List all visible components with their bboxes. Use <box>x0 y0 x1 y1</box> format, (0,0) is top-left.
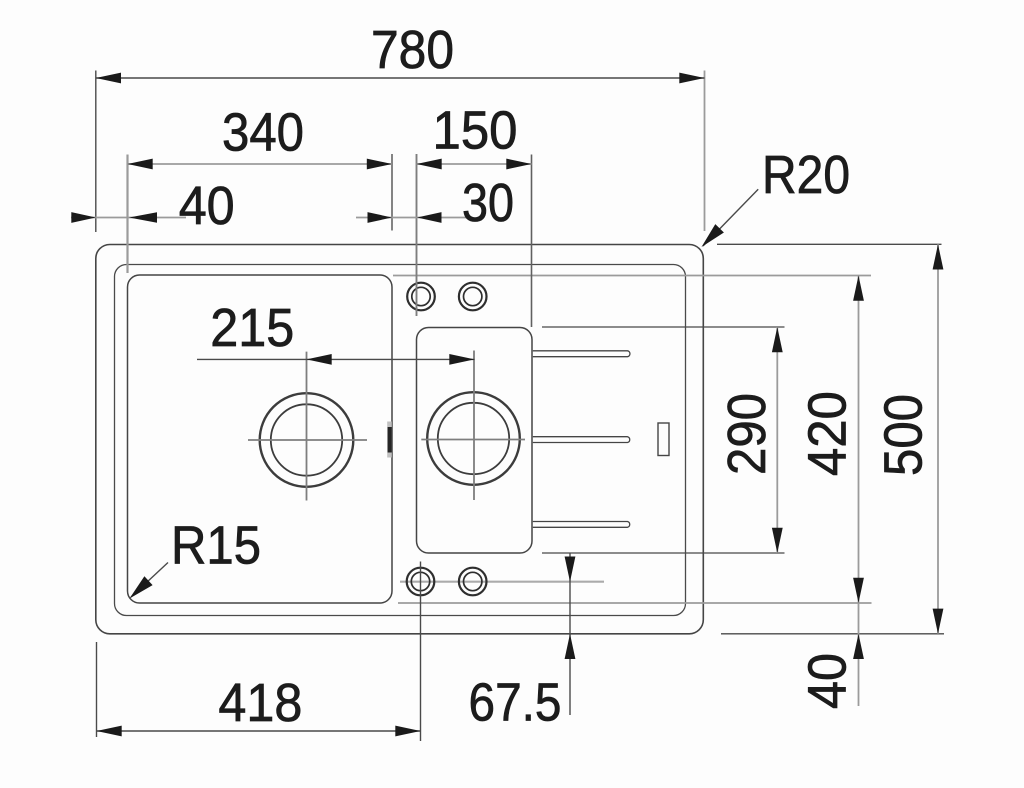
dim 290 arrow top <box>772 327 783 352</box>
R20 leader arrow <box>702 224 724 247</box>
dim 150/30 extension <box>416 154 418 316</box>
dim 30 arrow right <box>417 212 442 223</box>
dim 420 arrow top <box>853 276 864 301</box>
svg-text:215: 215 <box>210 298 294 358</box>
dim 340 arrow left <box>128 159 153 170</box>
overflow slot <box>658 423 669 456</box>
dim 780 line <box>96 77 705 79</box>
left basin drain <box>260 393 354 487</box>
dim 780 arrow right <box>679 73 704 84</box>
svg-text:500: 500 <box>874 394 934 476</box>
svg-text:R20: R20 <box>762 145 850 205</box>
tap hole top-left <box>407 283 435 311</box>
dim 418 line <box>97 730 421 732</box>
dim 418 arrow left <box>97 726 122 737</box>
drainer groove 1 <box>533 351 630 357</box>
drainer groove 3 <box>533 522 630 528</box>
small basin drain <box>427 392 520 485</box>
dim 780 arrow left <box>96 73 121 84</box>
svg-text:40: 40 <box>179 176 235 236</box>
dim 150 arrow left <box>417 159 442 170</box>
svg-text:418: 418 <box>218 673 302 733</box>
dim 40 arrow left <box>71 212 96 223</box>
sink inner rim <box>115 265 686 616</box>
svg-text:R15: R15 <box>171 516 261 576</box>
dim 420/40 line <box>858 276 860 707</box>
drainer bottom edge line <box>398 602 872 604</box>
dim 780 extension left <box>95 71 97 233</box>
dim 150 line <box>417 163 532 165</box>
dim 40 arrow right <box>129 212 157 223</box>
R15 leader arrow <box>130 576 153 598</box>
R15 leader line <box>131 563 168 598</box>
dim 420 arrow bottom <box>853 578 864 603</box>
left basin <box>128 275 393 603</box>
dim 67.5 arrow bottom <box>565 634 576 659</box>
svg-text:67.5: 67.5 <box>469 673 562 733</box>
svg-text:290: 290 <box>717 393 777 475</box>
top edge extension for 500 <box>717 243 942 245</box>
small basin bottom extension for 290 <box>542 552 785 554</box>
dim 40 arrow bottom (outside) <box>853 634 864 659</box>
dim 150 arrow right <box>506 159 531 170</box>
dim 780 extension right <box>704 71 706 232</box>
dim 500 line <box>937 244 939 634</box>
svg-text:780: 780 <box>371 20 454 80</box>
tap hole bottom-right <box>459 568 487 596</box>
dim 30 line <box>356 217 467 219</box>
bottom edge extension for 500/40 <box>721 633 944 635</box>
small basin <box>417 328 533 554</box>
dim 290 arrow bottom <box>772 528 783 553</box>
dim 340 extension left <box>126 155 128 274</box>
svg-text:340: 340 <box>222 103 304 163</box>
left drain crosshair <box>248 352 367 501</box>
dim 215 arrow right <box>449 354 474 365</box>
dim 150 extension right <box>531 155 533 328</box>
dim 215 arrow left <box>307 354 332 365</box>
svg-text:420: 420 <box>798 391 858 476</box>
dim 40 line <box>71 217 186 219</box>
dim 340/30 extension mid <box>391 154 393 231</box>
dim 340 arrow right <box>367 159 392 170</box>
dim 290 line <box>776 327 778 553</box>
dim 67.5 arrow top <box>565 557 576 582</box>
dim 30 arrow left <box>368 212 393 223</box>
dim 500 arrow bottom <box>933 609 944 634</box>
small basin top extension for 290 <box>542 326 785 328</box>
dim 418 arrow right <box>395 726 420 737</box>
dim 500 arrow top <box>933 244 944 269</box>
svg-text:40: 40 <box>798 653 858 709</box>
drainer groove 2 <box>533 437 630 443</box>
small drain crosshair <box>421 351 525 501</box>
svg-text:150: 150 <box>433 101 518 161</box>
sink outer rim <box>96 245 704 634</box>
tap-hole centre line <box>400 581 604 583</box>
R20 leader line <box>703 189 758 246</box>
dim 418 extension right <box>420 562 422 742</box>
drainer top edge line <box>393 275 871 277</box>
dim 340 line <box>128 163 393 165</box>
dim 215 line <box>197 358 475 360</box>
divider overflow notch <box>387 422 392 458</box>
dim 67.5 line <box>569 554 571 716</box>
tap hole bottom-left <box>407 568 435 596</box>
dim 418 extension left <box>96 642 98 737</box>
tap hole top-right <box>459 283 487 311</box>
svg-text:30: 30 <box>462 173 514 233</box>
